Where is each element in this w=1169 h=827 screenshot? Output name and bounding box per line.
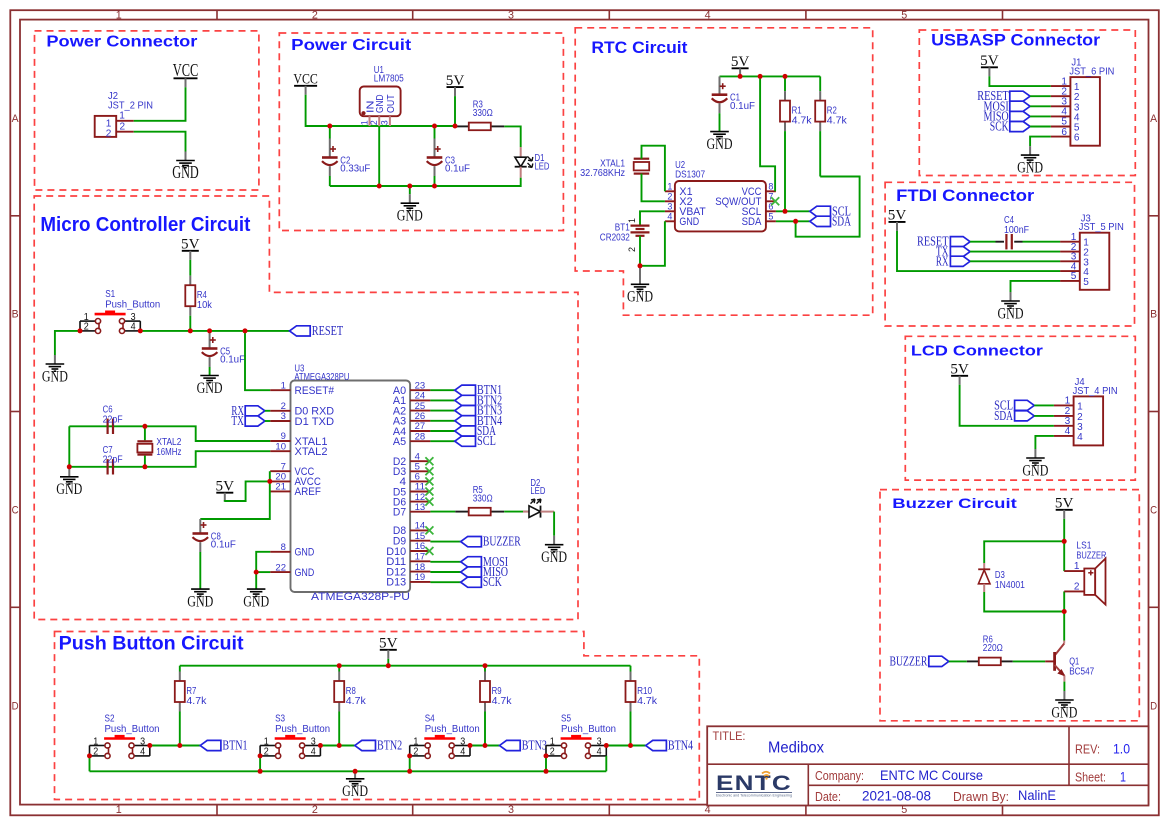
svg-text:Date:: Date: [815, 790, 841, 804]
svg-text:2: 2 [120, 120, 126, 132]
svg-text:20: 20 [275, 472, 286, 482]
svg-text:GND: GND [187, 593, 213, 610]
svg-text:S4: S4 [425, 714, 435, 725]
svg-text:6: 6 [415, 472, 420, 482]
svg-text:D: D [12, 700, 19, 712]
svg-text:220Ω: 220Ω [983, 643, 1003, 654]
svg-text:16: 16 [415, 541, 426, 551]
svg-text:4.7k: 4.7k [827, 116, 848, 127]
svg-text:0.1uF: 0.1uF [220, 355, 245, 366]
svg-text:SDA: SDA [994, 408, 1013, 423]
svg-text:100nF: 100nF [1004, 225, 1029, 236]
svg-text:BC547: BC547 [1069, 667, 1094, 678]
svg-text:ENTC: ENTC [716, 772, 792, 795]
svg-text:3: 3 [140, 736, 145, 747]
svg-text:24: 24 [415, 391, 426, 401]
svg-text:LCD Connector: LCD Connector [911, 343, 1043, 359]
svg-text:0.1uF: 0.1uF [730, 101, 755, 112]
svg-text:26: 26 [415, 411, 426, 421]
svg-text:4.7k: 4.7k [792, 116, 813, 127]
svg-text:25: 25 [415, 401, 426, 411]
svg-text:Drawn By:: Drawn By: [953, 790, 1009, 804]
svg-text:1: 1 [413, 736, 418, 747]
svg-text:10k: 10k [197, 300, 213, 311]
svg-text:D: D [1150, 700, 1157, 712]
svg-text:Push_Button: Push_Button [425, 724, 480, 735]
svg-text:Push_Button: Push_Button [275, 724, 330, 735]
svg-text:Push_Button: Push_Button [105, 724, 160, 735]
svg-text:A5: A5 [393, 436, 406, 448]
svg-text:LED: LED [530, 486, 545, 497]
svg-text:8: 8 [281, 542, 286, 552]
svg-text:NalinE: NalinE [1018, 787, 1056, 803]
svg-text:2: 2 [667, 192, 672, 202]
svg-text:SCL: SCL [477, 433, 496, 448]
svg-text:USBASP Connector: USBASP Connector [931, 32, 1101, 50]
svg-text:SCK: SCK [990, 119, 1009, 134]
svg-text:C: C [1150, 505, 1157, 517]
svg-text:ENTC MC Course: ENTC MC Course [880, 767, 983, 783]
svg-text:15: 15 [415, 531, 426, 541]
svg-text:330Ω: 330Ω [473, 493, 493, 504]
svg-text:4: 4 [597, 747, 602, 758]
svg-text:7: 7 [281, 461, 286, 471]
svg-text:GND: GND [707, 136, 733, 153]
svg-text:1: 1 [264, 736, 269, 747]
svg-text:6: 6 [1074, 132, 1080, 144]
svg-text:1: 1 [627, 218, 638, 223]
svg-text:2: 2 [627, 247, 638, 252]
svg-text:SDA: SDA [742, 216, 763, 228]
svg-text:1N4001: 1N4001 [995, 580, 1025, 591]
svg-text:Power Circuit: Power Circuit [291, 37, 412, 54]
svg-text:Power Connector: Power Connector [46, 34, 197, 51]
svg-text:1: 1 [1074, 560, 1080, 572]
svg-text:5: 5 [768, 212, 773, 222]
svg-text:AREF: AREF [295, 486, 322, 498]
svg-text:21: 21 [275, 482, 286, 492]
svg-text:5: 5 [901, 9, 907, 21]
svg-text:GND: GND [172, 162, 199, 182]
svg-text:8: 8 [768, 182, 773, 192]
svg-text:OUT: OUT [386, 94, 397, 113]
svg-text:6: 6 [1061, 126, 1067, 138]
svg-text:GND: GND [1017, 159, 1043, 176]
svg-text:GND: GND [342, 783, 368, 800]
svg-text:RTC Circuit: RTC Circuit [591, 39, 688, 57]
svg-text:17: 17 [415, 552, 426, 562]
svg-text:4: 4 [140, 747, 145, 758]
svg-text:5: 5 [415, 462, 420, 472]
svg-text:2: 2 [106, 128, 112, 140]
svg-text:22pF: 22pF [103, 455, 123, 466]
svg-text:4: 4 [131, 322, 136, 333]
svg-text:23: 23 [415, 380, 426, 390]
svg-text:5: 5 [1071, 270, 1077, 282]
svg-text:1: 1 [667, 182, 672, 192]
svg-text:D13: D13 [386, 577, 406, 589]
svg-text:3: 3 [508, 804, 514, 816]
svg-text:2: 2 [93, 747, 98, 758]
svg-text:3: 3 [281, 411, 286, 421]
svg-text:GND: GND [541, 549, 567, 566]
svg-text:4: 4 [667, 212, 672, 222]
svg-text:BTN3: BTN3 [522, 738, 547, 753]
svg-text:S2: S2 [105, 714, 115, 725]
svg-text:14: 14 [415, 521, 426, 531]
svg-text:JST_4 PIN: JST_4 PIN [1073, 385, 1118, 397]
svg-text:Sheet:: Sheet: [1075, 771, 1106, 785]
svg-text:RESET#: RESET# [295, 385, 335, 397]
svg-text:Buzzer Circuit: Buzzer Circuit [892, 496, 1017, 511]
svg-text:0.33uF: 0.33uF [340, 164, 370, 175]
svg-text:2: 2 [312, 9, 318, 21]
svg-text:JST_2 PIN: JST_2 PIN [108, 100, 153, 111]
svg-text:4.7k: 4.7k [346, 696, 367, 707]
svg-text:4: 4 [415, 451, 420, 461]
svg-text:SDA: SDA [832, 213, 851, 228]
svg-text:BUZZER: BUZZER [483, 534, 521, 549]
svg-text:4: 4 [705, 9, 711, 21]
svg-text:18: 18 [415, 562, 426, 572]
svg-text:4: 4 [1065, 425, 1071, 437]
svg-text:Push_Button: Push_Button [561, 724, 616, 735]
svg-text:BTN2: BTN2 [377, 738, 402, 753]
svg-text:4: 4 [1077, 431, 1083, 443]
svg-text:13: 13 [415, 502, 426, 512]
svg-text:3: 3 [460, 736, 465, 747]
svg-text:1: 1 [93, 736, 98, 747]
svg-text:2: 2 [84, 322, 89, 333]
svg-text:BTN1: BTN1 [222, 738, 247, 753]
svg-text:330Ω: 330Ω [473, 108, 493, 119]
svg-text:GND: GND [197, 380, 223, 397]
svg-text:22pF: 22pF [103, 414, 123, 425]
svg-text:9: 9 [281, 431, 286, 441]
svg-text:3: 3 [311, 736, 316, 747]
svg-text:REV:: REV: [1075, 743, 1100, 757]
svg-text:A: A [1150, 113, 1158, 125]
svg-text:3: 3 [667, 202, 672, 212]
svg-text:GND: GND [42, 368, 68, 385]
svg-text:A: A [12, 113, 20, 125]
svg-text:LM7805: LM7805 [374, 74, 404, 85]
svg-text:GND: GND [679, 216, 699, 228]
svg-text:BUZZER: BUZZER [1076, 550, 1106, 561]
svg-text:2: 2 [281, 401, 286, 411]
svg-text:D1 TXD: D1 TXD [295, 416, 335, 428]
svg-text:TITLE:: TITLE: [713, 731, 746, 743]
svg-text:22: 22 [275, 562, 286, 572]
svg-text:2: 2 [1074, 581, 1080, 593]
svg-text:27: 27 [415, 421, 426, 431]
svg-text:Medibox: Medibox [768, 740, 824, 757]
svg-text:BUZZER: BUZZER [890, 653, 928, 668]
svg-text:28: 28 [415, 431, 426, 441]
svg-text:Company:: Company: [815, 769, 864, 783]
svg-text:S5: S5 [561, 714, 571, 725]
svg-text:GND: GND [1051, 704, 1077, 721]
svg-text:3: 3 [380, 120, 391, 125]
svg-text:1: 1 [281, 380, 286, 390]
svg-text:B: B [1150, 309, 1157, 321]
svg-text:1: 1 [116, 804, 122, 816]
svg-text:10: 10 [275, 441, 286, 451]
svg-text:LED: LED [535, 162, 550, 173]
svg-text:Push Button Circuit: Push Button Circuit [59, 633, 245, 654]
svg-text:SCK: SCK [483, 574, 502, 589]
svg-text:GND: GND [375, 94, 386, 113]
svg-text:2: 2 [312, 804, 318, 816]
svg-text:VCC: VCC [173, 60, 199, 80]
svg-text:ATMEGA328PU: ATMEGA328PU [294, 372, 349, 383]
svg-text:ATMEGA328P-PU: ATMEGA328P-PU [311, 591, 410, 603]
svg-text:4.7k: 4.7k [492, 696, 513, 707]
svg-text:5: 5 [1083, 276, 1089, 288]
svg-text:1: 1 [550, 736, 555, 747]
svg-text:CR2032: CR2032 [600, 233, 630, 244]
svg-text:4.7k: 4.7k [186, 696, 207, 707]
svg-text:Push_Button: Push_Button [105, 300, 160, 311]
svg-text:32.768KHz: 32.768KHz [580, 168, 625, 179]
svg-text:19: 19 [415, 572, 426, 582]
svg-text:GND: GND [1022, 462, 1048, 479]
svg-text:GND: GND [56, 481, 82, 498]
svg-text:1: 1 [1120, 769, 1126, 785]
svg-text:GND: GND [295, 567, 315, 579]
svg-text:JST_6 PIN: JST_6 PIN [1069, 66, 1114, 78]
svg-text:D7: D7 [393, 507, 406, 519]
svg-text:4: 4 [460, 747, 465, 758]
svg-text:GND: GND [243, 593, 269, 610]
svg-text:GND: GND [998, 305, 1024, 322]
svg-text:1: 1 [116, 9, 122, 21]
svg-text:FTDI Connector: FTDI Connector [896, 186, 1035, 205]
svg-text:Electronic and Telecommunicati: Electronic and Telecommunication Enginee… [716, 794, 792, 798]
svg-text:4: 4 [311, 747, 316, 758]
svg-text:GND: GND [627, 289, 653, 306]
svg-text:0.1uF: 0.1uF [211, 540, 236, 551]
svg-text:RX: RX [936, 253, 949, 268]
svg-text:BTN4: BTN4 [668, 738, 693, 753]
svg-text:GND: GND [295, 547, 315, 559]
svg-text:B: B [12, 309, 19, 321]
svg-text:S3: S3 [275, 714, 285, 725]
svg-text:3: 3 [508, 9, 514, 21]
svg-text:11: 11 [415, 482, 426, 492]
svg-text:2: 2 [264, 747, 269, 758]
svg-text:S1: S1 [105, 289, 115, 300]
svg-text:C: C [12, 505, 19, 517]
svg-text:Micro Controller Circuit: Micro Controller Circuit [40, 214, 250, 236]
svg-text:2021-08-08: 2021-08-08 [862, 788, 931, 804]
svg-text:2: 2 [550, 747, 555, 758]
svg-text:2: 2 [413, 747, 418, 758]
svg-text:16MHz: 16MHz [156, 447, 181, 458]
svg-text:GND: GND [397, 208, 423, 225]
svg-text:1.0: 1.0 [1113, 741, 1130, 757]
svg-text:TX: TX [231, 413, 244, 428]
svg-text:2: 2 [369, 120, 380, 125]
svg-text:0.1uF: 0.1uF [445, 164, 470, 175]
svg-text:JST_5 PIN: JST_5 PIN [1079, 221, 1124, 233]
svg-text:4.7k: 4.7k [637, 696, 658, 707]
svg-text:XTAL2: XTAL2 [295, 446, 328, 458]
svg-text:12: 12 [415, 492, 426, 502]
svg-text:RESET: RESET [312, 324, 344, 339]
svg-text:3: 3 [597, 736, 602, 747]
svg-text:DS1307: DS1307 [675, 169, 705, 180]
